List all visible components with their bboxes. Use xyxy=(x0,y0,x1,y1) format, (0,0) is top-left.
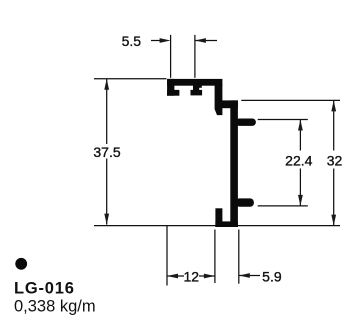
profile step xyxy=(222,101,238,108)
extension line 37.5 top xyxy=(94,78,167,80)
dimension 5.5 right arrow tail xyxy=(195,40,217,42)
extension line 5.9 xyxy=(238,230,240,284)
arrowhead 12 left (points left) xyxy=(167,274,178,279)
extension line 32 top xyxy=(241,99,340,101)
bullet dot xyxy=(15,258,27,270)
svg-text:LG-016: LG-016 xyxy=(14,279,75,297)
extension line 12 left xyxy=(166,226,168,286)
svg-text:5.5: 5.5 xyxy=(122,33,142,49)
extension line 5.5 right xyxy=(194,35,196,78)
arrowhead 37.5 down xyxy=(104,214,109,225)
svg-text:37.5: 37.5 xyxy=(93,144,120,160)
profile middle hook stem xyxy=(193,84,198,91)
arrowhead 5.9 (points left) xyxy=(239,273,250,278)
dimension 12 left segment xyxy=(167,275,184,277)
dimension line 22.4 xyxy=(299,120,301,206)
arrowhead 12 right (points right) xyxy=(204,274,215,279)
extension line 22.4 bottom xyxy=(258,205,308,207)
profile left hook foot xyxy=(168,90,180,95)
extension line bottom shared 37.5 and 32 xyxy=(94,225,340,227)
profile bottom tab xyxy=(236,199,254,207)
label 22.4 background xyxy=(286,151,315,169)
svg-text:32: 32 xyxy=(327,153,343,169)
profile right leg xyxy=(215,84,222,115)
arrowhead 37.5 up xyxy=(104,79,109,90)
dimension line 37.5 xyxy=(106,79,108,225)
arrowhead 5.5 right (points left) xyxy=(195,38,206,43)
arrowhead 5.5 left (points right) xyxy=(160,38,171,43)
profile spine xyxy=(231,101,238,227)
label 32 background xyxy=(326,151,345,169)
arrowhead 22.4 down xyxy=(298,195,303,206)
profile middle hook nub xyxy=(199,85,202,88)
profile bottom foot lip xyxy=(216,209,222,227)
dimension 5.9 arrow tail xyxy=(239,275,260,277)
profile left leg xyxy=(168,79,175,95)
extension line 12 right xyxy=(214,230,216,284)
arrowhead 32 down xyxy=(331,215,336,226)
dimension 5.5 left arrow tail xyxy=(151,40,163,42)
profile top bar xyxy=(168,79,223,85)
profile top tab xyxy=(236,119,256,126)
dimension 12 right segment xyxy=(199,275,215,277)
dimension line 32 xyxy=(333,100,335,225)
label 37.5 background xyxy=(93,144,122,159)
profile middle hook foot xyxy=(191,90,202,95)
arrowhead 22.4 up xyxy=(298,120,303,131)
svg-text:5.9: 5.9 xyxy=(262,269,282,285)
svg-text:0,338 kg/m: 0,338 kg/m xyxy=(14,297,96,315)
extension line 22.4 top xyxy=(258,119,308,121)
svg-text:22.4: 22.4 xyxy=(285,153,312,169)
svg-text:12: 12 xyxy=(184,269,200,285)
extension line 5.5 left xyxy=(170,35,172,78)
profile bottom foot xyxy=(216,222,238,227)
arrowhead 32 up xyxy=(331,100,336,111)
